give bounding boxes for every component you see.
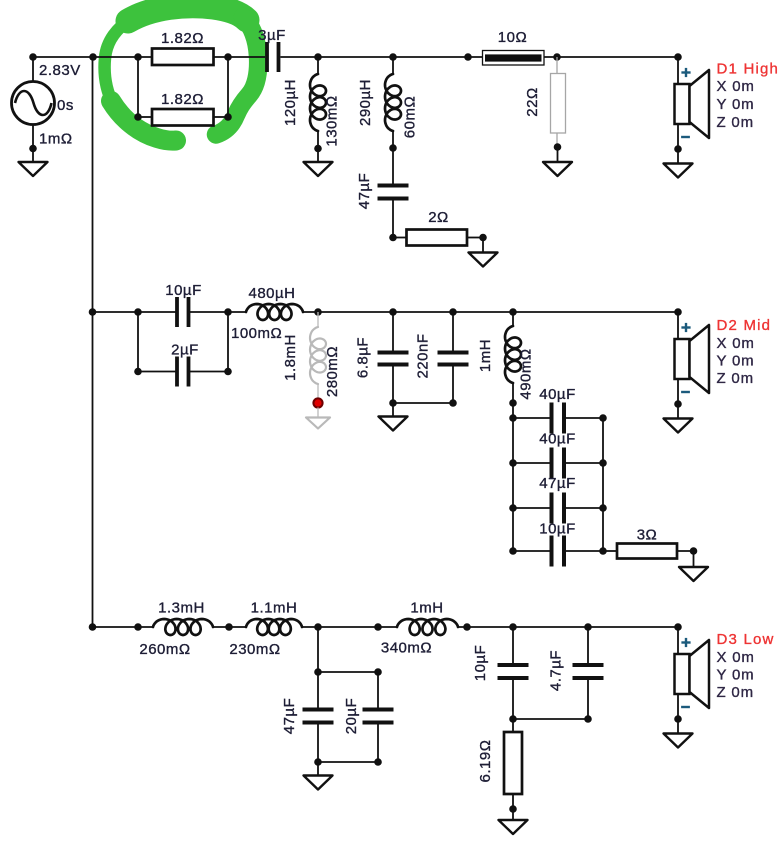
node D3 top junction: [674, 623, 682, 631]
ground below L4 disabled: [306, 408, 330, 429]
capacitor C1 3uF: [267, 42, 279, 72]
svg-text:1mH: 1mH: [477, 339, 494, 372]
svg-text:47µF: 47µF: [539, 475, 576, 492]
label L8 resistance 340m&#937;: [381, 640, 432, 657]
inductor L4 1.8mH disabled: [310, 312, 326, 399]
ground below source: [19, 149, 48, 177]
node source bottom: [29, 145, 37, 153]
label L7 resistance 230m&#937;: [229, 641, 280, 658]
label L4 resistance 280m&#937;: [324, 346, 341, 397]
wire C5-C6 bottom link: [393, 402, 453, 404]
svg-text:480µH: 480µH: [248, 285, 295, 302]
ground below R6: [679, 551, 708, 581]
node top-rail left-bus junction: [89, 53, 97, 61]
label L1 value 120&#181;H: [282, 79, 299, 126]
wire R4 to node: [544, 56, 678, 58]
node C7 left: [509, 414, 517, 422]
svg-text:47µF: 47µF: [356, 173, 373, 210]
svg-text:10µF: 10µF: [472, 645, 489, 682]
label R6 value 3&#937;: [637, 527, 658, 544]
svg-text:Z 0m: Z 0m: [717, 114, 754, 131]
node L6-L7 junction: [225, 623, 233, 631]
svg-text:60mΩ: 60mΩ: [402, 96, 419, 138]
wire L2 to C2: [392, 148, 394, 184]
label D2 Z 0m: [717, 370, 754, 387]
label D3 Y 0m: [717, 667, 755, 684]
node C8 right: [599, 459, 607, 467]
wire parallel-C right link: [190, 312, 228, 372]
capacitor C2 47uF: [378, 186, 409, 199]
wire R1 to C1: [214, 56, 266, 58]
label C1 value 3&#181;F: [258, 27, 286, 44]
svg-text:40µF: 40µF: [539, 386, 576, 403]
svg-text:X 0m: X 0m: [717, 649, 755, 666]
label L4 value 1.8mH: [282, 334, 299, 381]
capacitor C9 47uF: [552, 493, 565, 524]
svg-text:22Ω: 22Ω: [524, 87, 541, 116]
capacitor C3 10uF: [177, 297, 189, 327]
capacitor C6 220nF: [438, 312, 469, 403]
capacitor C8 40uF: [552, 448, 565, 479]
wire R3 to ground: [467, 237, 483, 239]
label C10 value 10&#181;F: [539, 521, 576, 538]
svg-text:1mΩ: 1mΩ: [39, 131, 73, 148]
inductor L5 1mH: [505, 312, 521, 403]
svg-text:D3 Low: D3 Low: [717, 631, 775, 648]
label V1 value 2.83V: [39, 62, 81, 79]
node wire junction before R4: [464, 53, 472, 61]
wire parallel-R left link: [138, 57, 152, 117]
node C5 bottom: [389, 399, 397, 407]
label L6 value 1.3mH: [158, 600, 205, 617]
voltage source V1 2.83V: [12, 57, 55, 149]
inductor L2 290uH: [385, 57, 401, 148]
svg-text:20µF: 20µF: [343, 698, 360, 735]
node L8 right: [463, 623, 471, 631]
capacitor C14 4.7uF: [573, 627, 604, 719]
svg-text:130mΩ: 130mΩ: [324, 95, 341, 146]
node C2-R3 junction: [389, 234, 397, 242]
node R7 bottom: [509, 805, 517, 813]
ground below R5: [543, 147, 572, 176]
wire mid rail left: [93, 311, 177, 313]
wire L6 to L7: [213, 626, 246, 628]
node R1 right: [224, 53, 232, 61]
label V1 delay 0s: [57, 97, 74, 114]
svg-text:280mΩ: 280mΩ: [324, 346, 341, 397]
svg-text:290µH: 290µH: [357, 79, 374, 126]
label C12 value 20&#181;F: [343, 698, 360, 735]
svg-text:10µF: 10µF: [539, 521, 576, 538]
node C10 right: [599, 547, 607, 555]
svg-text:Y 0m: Y 0m: [717, 353, 755, 370]
resistor R6 3ohm: [617, 544, 677, 559]
node D2 top junction: [674, 308, 682, 316]
svg-text:47µF: 47µF: [281, 698, 298, 735]
node C10 left: [509, 547, 517, 555]
wire shunt1 down: [317, 627, 319, 672]
ground below L1: [304, 149, 333, 177]
label R5 value 22&#937;: [524, 87, 541, 116]
svg-text:6.8µF: 6.8µF: [355, 337, 372, 378]
inductor L8 1mH: [397, 619, 458, 635]
node D1 top junction: [674, 53, 682, 61]
wire left bus vertical: [92, 57, 94, 627]
node C11 top: [314, 668, 322, 676]
svg-text:340mΩ: 340mΩ: [381, 640, 432, 657]
svg-text:D2 Mid: D2 Mid: [717, 317, 772, 334]
svg-text:490mΩ: 490mΩ: [518, 348, 535, 399]
label D1 Y 0m: [717, 96, 755, 113]
label C9 value 47&#181;F: [539, 475, 576, 492]
node R2 right: [224, 113, 232, 121]
node C13 top junction: [509, 623, 517, 631]
capacitor C7 40uF: [552, 403, 565, 434]
node top-rail source junction: [29, 53, 37, 61]
label L1 resistance 130m&#937;: [324, 95, 341, 146]
svg-text:1.3mH: 1.3mH: [158, 600, 205, 617]
svg-text:2.83V: 2.83V: [39, 62, 81, 79]
node C14 top junction: [584, 623, 592, 631]
svg-text:D1 High: D1 High: [717, 61, 780, 78]
svg-text:120µH: 120µH: [282, 79, 299, 126]
wire row4 to R6: [603, 550, 617, 552]
label R2 value 1.82&#937;: [161, 91, 204, 108]
resistor R1 1.82ohm top: [152, 49, 214, 66]
node L2 bottom: [389, 144, 397, 152]
svg-text:X 0m: X 0m: [717, 335, 755, 352]
node C6 top junction: [449, 308, 457, 316]
label R4 value 10&#937;: [498, 29, 527, 46]
resistor R5 22ohm disabled: [551, 57, 566, 147]
label D3 X 0m: [717, 649, 755, 666]
wire C3 to L3: [190, 311, 246, 313]
svg-text:100mΩ: 100mΩ: [231, 325, 282, 342]
node C4 right: [224, 368, 232, 376]
label D2 X 0m: [717, 335, 755, 352]
inductor L7 1.1mH: [246, 619, 302, 635]
label C11 value 47&#181;F: [281, 698, 298, 735]
wire shunt1 bottom link: [318, 761, 378, 763]
hand-drawn green marker circle annotation: [105, 6, 259, 141]
svg-text:40µF: 40µF: [539, 431, 576, 448]
label C3 value 10&#181;F: [165, 282, 202, 299]
speaker D1 High: [664, 57, 710, 178]
ground below C5: [379, 403, 408, 431]
node C5 top junction: [389, 308, 397, 316]
node L1 top junction: [314, 53, 322, 61]
wire ladder row1: [513, 417, 603, 419]
node C12 bottom: [374, 758, 382, 766]
label L2 value 290&#181;H: [357, 79, 374, 126]
node C11 bottom: [314, 758, 322, 766]
label L3 value 480&#181;H: [248, 285, 295, 302]
wire ladder row4: [513, 550, 603, 552]
svg-text:1.1mH: 1.1mH: [251, 600, 298, 617]
label L5 value 1mH: [477, 339, 494, 372]
svg-text:2µF: 2µF: [171, 342, 199, 359]
svg-text:4.7µF: 4.7µF: [548, 650, 565, 691]
node L8 left: [374, 623, 382, 631]
node C9 left: [509, 504, 517, 512]
label R3 value 2&#937;: [428, 209, 449, 226]
label D2 Mid: [717, 317, 772, 334]
label C5 value 6.8&#181;F: [355, 337, 372, 378]
wire mid rail to D2: [303, 311, 678, 313]
node R1 left: [134, 53, 142, 61]
svg-text:260mΩ: 260mΩ: [139, 641, 190, 658]
svg-text:1mH: 1mH: [410, 600, 443, 617]
label D1 Z 0m: [717, 114, 754, 131]
wire parallel-R right link: [214, 57, 229, 117]
wire C1 to 10ohm resistor: [281, 56, 483, 58]
node R6 right: [690, 547, 698, 555]
inductor L6 1.3mH: [153, 619, 213, 635]
inductor L1 120uH: [310, 57, 326, 149]
label L2 resistance 60m&#937;: [402, 96, 419, 138]
label C6 value 220nF: [415, 333, 432, 378]
svg-text:0s: 0s: [57, 97, 74, 114]
svg-text:Z 0m: Z 0m: [717, 370, 754, 387]
wire L8 to D3: [458, 626, 678, 628]
label V1 impedance 1m&#937;: [39, 131, 73, 148]
node C7 right: [599, 414, 607, 422]
svg-text:Y 0m: Y 0m: [717, 96, 755, 113]
resistor R7 6.19ohm: [504, 719, 522, 809]
label D3 Low: [717, 631, 775, 648]
node R5 bottom: [554, 143, 562, 151]
capacitor C11 47uF: [303, 672, 334, 762]
node C6 bottom: [449, 399, 457, 407]
wire L7 to L8: [302, 626, 397, 628]
inductor L3 480uH: [246, 304, 303, 320]
resistor R4 10ohm shorted: [483, 51, 545, 66]
label R7 value 6.19&#937;: [477, 740, 494, 783]
label L8 value 1mH: [410, 600, 443, 617]
node C9 right: [599, 504, 607, 512]
svg-text:Y 0m: Y 0m: [717, 667, 755, 684]
wire ladder row3: [513, 507, 603, 509]
node C13 bottom: [509, 715, 517, 723]
node C3 left: [134, 308, 142, 316]
node L6 left junction: [134, 623, 142, 631]
label L6 resistance 260m&#937;: [139, 641, 190, 658]
node C12 top: [374, 668, 382, 676]
svg-text:3Ω: 3Ω: [637, 527, 658, 544]
label C7 value 40&#181;F: [539, 386, 576, 403]
node L5 bottom: [509, 399, 517, 407]
label C4 value 2&#181;F: [171, 342, 199, 359]
wire shunt2 bottom link: [513, 718, 588, 720]
node C3 right: [224, 308, 232, 316]
wire low rail left: [93, 626, 154, 628]
label C14 value 4.7&#181;F: [548, 650, 565, 691]
label D2 Y 0m: [717, 353, 755, 370]
node L2 top junction: [389, 53, 397, 61]
node R3 right: [479, 234, 487, 242]
resistor R2 1.82ohm bottom: [152, 109, 214, 126]
ground below shunt1: [304, 762, 333, 790]
label C2 value 47&#181;F: [356, 173, 373, 210]
label D1 X 0m: [717, 78, 755, 95]
label R1 value 1.82&#937;: [161, 30, 204, 47]
wire top rail left: [33, 56, 152, 58]
svg-text:230mΩ: 230mΩ: [229, 641, 280, 658]
node C4 left: [134, 368, 142, 376]
svg-text:3µF: 3µF: [258, 27, 286, 44]
label C13 value 10&#181;F: [472, 645, 489, 682]
svg-text:10Ω: 10Ω: [498, 29, 527, 46]
node C14 bottom: [584, 715, 592, 723]
svg-text:1.8mH: 1.8mH: [282, 334, 299, 381]
svg-text:10µF: 10µF: [165, 282, 202, 299]
svg-text:220nF: 220nF: [415, 333, 432, 378]
capacitor C10 10uF: [552, 536, 565, 567]
wire C2 to R3: [393, 201, 407, 238]
svg-text:X 0m: X 0m: [717, 78, 755, 95]
node L4 disconnected red marker: [313, 398, 322, 407]
node C8 left: [509, 459, 517, 467]
wire ladder left bus: [512, 403, 514, 551]
capacitor C12 20uF: [363, 672, 394, 762]
node shunt1 junction: [314, 623, 322, 631]
label L3 resistance 100m&#937;: [231, 325, 282, 342]
wire R6 to ground: [677, 550, 694, 552]
wire parallel-C left link: [138, 312, 176, 372]
node R2 left: [134, 113, 142, 121]
label D1 High: [717, 61, 780, 78]
capacitor C5 6.8uF: [378, 312, 409, 403]
wire ladder right bus: [602, 418, 604, 551]
capacitor C13 10uF: [498, 627, 529, 719]
svg-text:Z 0m: Z 0m: [717, 684, 754, 701]
svg-text:2Ω: 2Ω: [428, 209, 449, 226]
label L7 value 1.1mH: [251, 600, 298, 617]
node L5 top junction: [509, 308, 517, 316]
capacitor C4 2uF: [177, 357, 189, 387]
ground below R3: [469, 238, 498, 267]
node low-rail left-bus end: [89, 623, 97, 631]
svg-text:6.19Ω: 6.19Ω: [477, 740, 494, 783]
node L4 top junction: [314, 308, 322, 316]
wire shunt1 top link: [318, 671, 378, 673]
speaker D3 Low: [664, 627, 710, 748]
wire ladder row2: [513, 462, 603, 464]
node 22ohm top junction: [553, 53, 561, 61]
node mid-rail left-bus junction: [89, 308, 97, 316]
svg-text:1.82Ω: 1.82Ω: [161, 30, 204, 47]
label C8 value 40&#181;F: [539, 431, 576, 448]
ground below R7: [499, 809, 528, 834]
resistor R3 2ohm: [407, 230, 468, 246]
svg-text:1.82Ω: 1.82Ω: [161, 91, 204, 108]
speaker D2 Mid: [664, 312, 710, 433]
label L5 resistance 490m&#937;: [518, 348, 535, 399]
label D3 Z 0m: [717, 684, 754, 701]
node L1 bottom: [314, 145, 322, 153]
